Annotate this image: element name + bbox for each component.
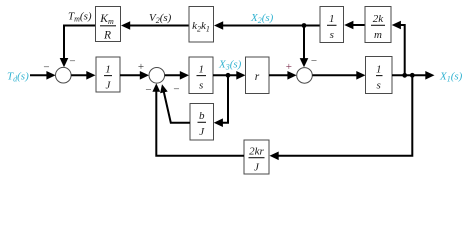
svg-text:−: −: [311, 55, 317, 67]
node on X2 line above S3: [302, 23, 307, 28]
block Km/R: [96, 7, 121, 42]
wire X1 branch down into 2kr/J: [270, 75, 413, 160]
svg-text:m: m: [374, 29, 382, 41]
wire S3 output into right 1/s: [312, 71, 365, 80]
svg-text:−: −: [173, 84, 179, 96]
svg-text:V2(s): V2(s): [149, 12, 172, 25]
wire 2k/m output into top 1/s: [344, 21, 365, 30]
label Td(s): [7, 71, 29, 84]
wire X1 output line: [392, 71, 435, 80]
svg-text:s: s: [377, 80, 381, 92]
wire X2 branch down into S3: [300, 26, 309, 68]
wire 2kr/J output into S2 bottom: [152, 83, 244, 155]
label X3(s): [218, 59, 242, 72]
block 1/s right: [366, 57, 393, 94]
svg-text:1: 1: [376, 63, 382, 75]
label X2(s): [250, 12, 274, 25]
svg-text:−: −: [145, 84, 151, 96]
wire Td(s) input into S1: [30, 71, 56, 80]
block 1/J: [96, 57, 120, 92]
wire X3 branch down into b/J: [214, 75, 228, 127]
block r: [246, 57, 270, 94]
wire X1 branch up into 2k/m: [392, 21, 405, 76]
sign minus at S1 left input: [43, 62, 49, 74]
wire X2(s): top 1/s output into k2k1: [214, 21, 320, 30]
svg-text:X3(s): X3(s): [218, 59, 242, 72]
sign plus at S2 left input: [138, 61, 144, 73]
block 2k/m: [365, 7, 391, 43]
svg-text:s: s: [199, 80, 203, 92]
label Tm(s): [68, 11, 92, 24]
node X1 down-branch: [410, 73, 415, 78]
svg-text:1: 1: [105, 63, 111, 75]
node on X3 line: [226, 73, 231, 78]
sign plus at S3 left input: [286, 61, 292, 73]
label V2(s): [149, 12, 172, 25]
wire r output into S3: [269, 71, 297, 80]
wire Tm(s): Km/R output to summing junction S1: [60, 26, 96, 68]
svg-text:X1(s): X1(s): [439, 71, 463, 84]
svg-text:2kr: 2kr: [249, 146, 264, 158]
svg-text:R: R: [103, 30, 111, 42]
svg-text:2k: 2k: [373, 13, 385, 25]
sign minus at S2 bottom-left input: [145, 84, 151, 96]
wire V2(s): k2k1 output into Km/R: [121, 21, 189, 30]
wire S1 output into 1/J: [71, 71, 95, 80]
svg-text:Td(s): Td(s): [7, 71, 29, 84]
block 1/s middle: [189, 57, 213, 94]
svg-text:Tm(s): Tm(s): [68, 11, 92, 24]
block 1/s top: [320, 7, 344, 43]
svg-text:−: −: [43, 62, 49, 74]
wire S2 output into middle 1/s: [165, 71, 189, 80]
svg-text:1: 1: [198, 63, 204, 75]
svg-text:X2(s): X2(s): [250, 12, 274, 25]
summing junction S3: [297, 68, 313, 84]
svg-text:r: r: [255, 71, 260, 83]
sign minus at S1 top input: [69, 56, 75, 68]
block k2k1: [189, 7, 214, 43]
summing junction S2: [149, 68, 165, 84]
svg-text:+: +: [138, 61, 144, 73]
svg-text:−: −: [69, 56, 75, 68]
svg-text:b: b: [199, 110, 205, 122]
svg-text:+: +: [286, 61, 292, 73]
node X1 up-branch: [402, 73, 407, 78]
sign minus at S3 top input: [311, 55, 317, 67]
wire b/J output into S2 bottom-right (diagonal): [160, 84, 190, 123]
sign minus at S2 bottom-right input: [173, 84, 179, 96]
block 2kr/J: [244, 140, 269, 174]
wire X3: middle 1/s output into r: [213, 71, 246, 80]
svg-text:1: 1: [329, 13, 335, 25]
block b/J: [190, 104, 214, 141]
label X1(s): [439, 71, 463, 84]
svg-text:s: s: [330, 29, 334, 41]
summing junction S1: [56, 67, 72, 83]
wire 1/J output into S2: [120, 71, 149, 80]
